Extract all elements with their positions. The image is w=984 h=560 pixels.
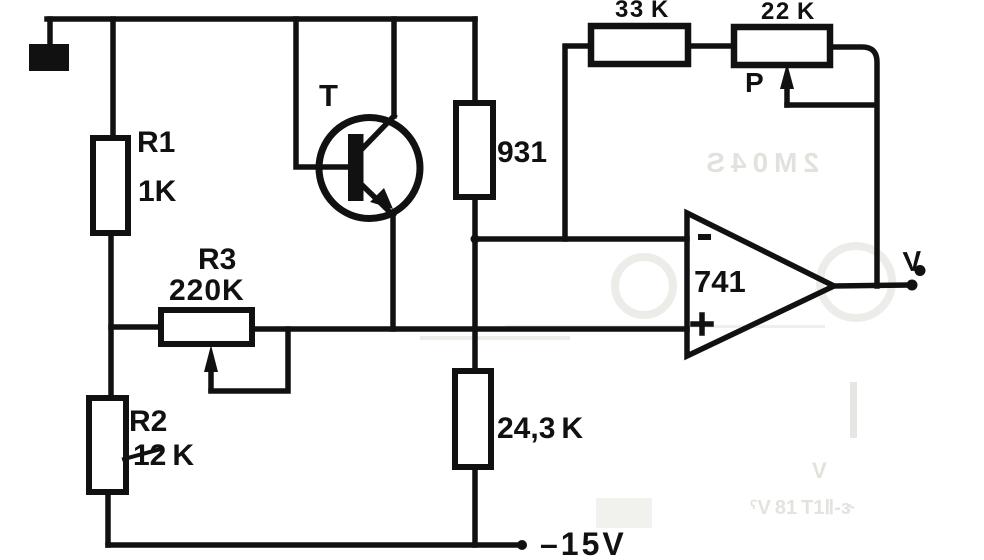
wire left rail	[108, 233, 114, 398]
node minus junction	[471, 235, 480, 244]
svg-text:ˁV 81 T1Ⅱ‑ɝ: ˁV 81 T1Ⅱ‑ɝ	[750, 497, 855, 519]
wire top rail	[47, 16, 475, 22]
svg-text:–15V: –15V	[540, 526, 627, 560]
svg-text:V: V	[812, 458, 827, 483]
wire sensor drop	[47, 19, 53, 46]
wire R3 wiper return	[211, 329, 288, 391]
wire feedback rail	[565, 46, 591, 239]
wire minus input	[475, 236, 687, 242]
wire wiper return	[787, 102, 874, 108]
svg-text:R3: R3	[198, 243, 236, 276]
node -15V terminal	[517, 540, 527, 550]
resistor 931	[456, 103, 493, 197]
resistor R1	[93, 138, 128, 233]
node Vo terminal	[907, 280, 918, 291]
transistor T	[319, 118, 420, 219]
wire output	[834, 285, 908, 286]
svg-text:220K: 220K	[169, 274, 245, 307]
svg-text:741: 741	[694, 264, 746, 299]
wire R1 top	[110, 19, 116, 138]
wire plus input	[252, 326, 687, 332]
thermistor sensor blob	[29, 44, 69, 71]
svg-text:2M04S: 2M04S	[700, 147, 819, 178]
potentiometer 22K	[734, 27, 830, 65]
wire 22K right	[830, 47, 877, 286]
svg-text:22 K: 22 K	[761, 0, 816, 25]
resistor 24,3K	[455, 371, 491, 467]
wire R2 bottom	[105, 492, 111, 545]
wire base rail	[296, 19, 351, 167]
wire collector	[391, 19, 397, 116]
svg-text:931: 931	[497, 136, 547, 169]
wire mid column	[472, 197, 478, 371]
svg-text:24,3 K: 24,3 K	[497, 412, 583, 445]
svg-text:R2: R2	[129, 405, 167, 438]
wire R3 branch	[111, 324, 161, 330]
wiper 22K arrow	[784, 86, 790, 105]
resistor R2	[89, 398, 126, 492]
svg-text:R1: R1	[137, 126, 175, 159]
wiper R3 arrow	[208, 366, 214, 390]
potentiometer R3	[161, 310, 252, 344]
resistor 33K	[591, 26, 688, 64]
op-amp 741	[687, 213, 834, 356]
wire 24,3K bottom	[472, 467, 478, 545]
wire 931 top	[472, 19, 478, 103]
wire bottom rail	[108, 542, 522, 548]
svg-text:33 K: 33 K	[615, 0, 670, 23]
svg-text:P: P	[745, 67, 764, 98]
svg-text:1K: 1K	[138, 175, 177, 208]
wire emitter	[390, 213, 396, 329]
wire R2 strike mark	[124, 449, 161, 459]
svg-text:T: T	[319, 78, 338, 113]
bleed-through artifacts	[420, 147, 892, 528]
wire 33K-22K link	[688, 43, 734, 49]
